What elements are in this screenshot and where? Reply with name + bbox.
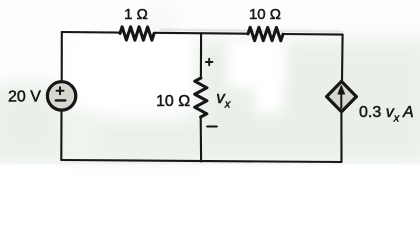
svg-text:10 Ω: 10 Ω <box>249 6 281 23</box>
svg-text:x: x <box>224 99 231 111</box>
svg-text:10 Ω: 10 Ω <box>156 93 190 110</box>
svg-text:1 Ω: 1 Ω <box>124 6 148 23</box>
svg-text:20 V: 20 V <box>8 89 41 106</box>
